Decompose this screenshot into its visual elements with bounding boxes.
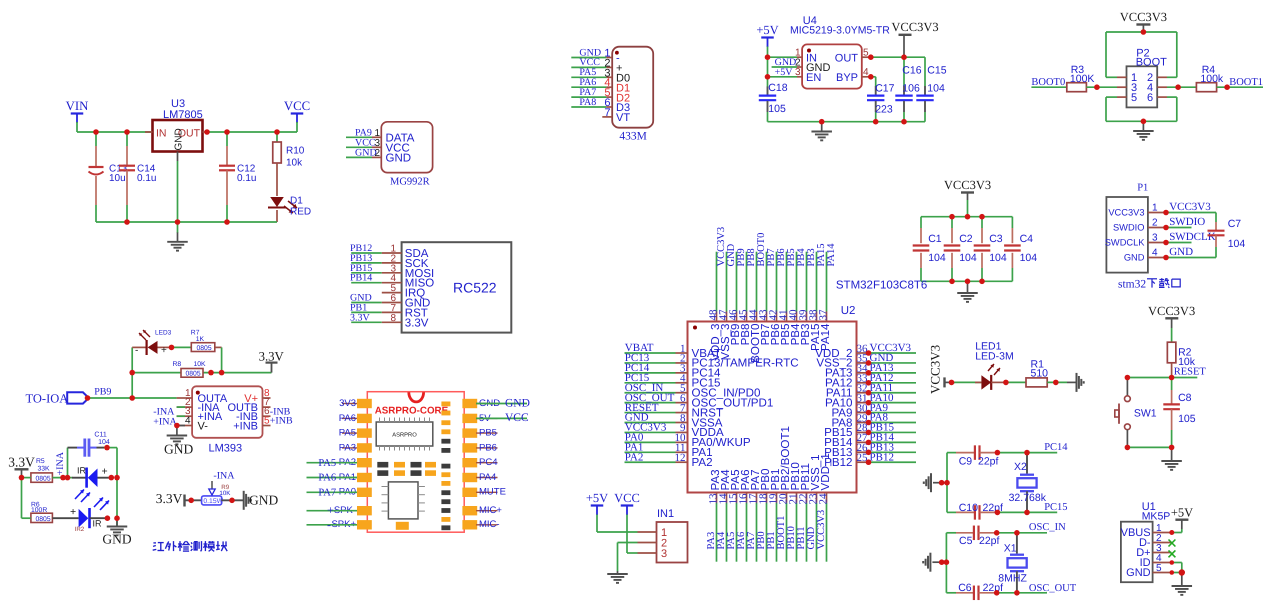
- wire cap top rail: [921, 216, 1012, 218]
- svg-text:+5V: +5V: [756, 23, 778, 37]
- wire GND row: [772, 66, 797, 68]
- svg-text:VCC3V3: VCC3V3: [891, 20, 938, 34]
- node PB9: [129, 395, 135, 401]
- svg-text:510: 510: [1031, 368, 1049, 380]
- node IR2 right a: [105, 515, 111, 521]
- wire net VCC to 433M pin 2: [571, 66, 606, 68]
- wire pin4 to ground: [177, 425, 185, 427]
- node c2b: [949, 279, 955, 285]
- U4 pin3: [797, 76, 802, 78]
- LED D LED1 LED-3M: [981, 375, 991, 389]
- resistor R10 10k: [276, 132, 278, 142]
- node VBUS: [1169, 530, 1174, 535]
- P1 pin 1 VCC3V3: [1148, 212, 1166, 214]
- wire -INA arrow: [211, 481, 213, 489]
- wire R2 to node: [1171, 363, 1173, 378]
- ASRPRO left pad SPK+: [357, 520, 372, 529]
- wire R9 right: [221, 499, 243, 501]
- resistor R4 100k: [1196, 83, 1216, 92]
- svg-text:C3: C3: [989, 233, 1003, 245]
- svg-text:PB5: PB5: [479, 428, 497, 439]
- node U4 IN: [765, 54, 771, 60]
- wire net PB12 to RC522 pin 1: [351, 252, 382, 254]
- svg-text:PA14: PA14: [826, 243, 837, 267]
- svg-text:C2: C2: [959, 233, 973, 245]
- wire X1 left vertical: [945, 533, 947, 593]
- svg-text:C18: C18: [768, 82, 787, 94]
- svg-text:C10: C10: [959, 502, 978, 514]
- node x2 g2: [944, 480, 950, 486]
- capacitor C17 223: [875, 86, 877, 95]
- wire net GND to 433M pin 1: [571, 57, 606, 59]
- svg-text:+: +: [161, 345, 167, 356]
- wire VCC right: [476, 417, 527, 419]
- wire net PB14 to RC522 pin 4: [351, 282, 382, 284]
- svg-text:+5V: +5V: [586, 491, 608, 505]
- wire P1 row1: [1166, 212, 1216, 214]
- U2 pin 25 PB12: [857, 461, 869, 463]
- node IR1 right b: [114, 475, 120, 481]
- svg-text:MUTE: MUTE: [479, 487, 506, 498]
- node R8 right: [208, 370, 214, 376]
- capacitor C2 104: [951, 217, 953, 228]
- IR photodiode IR1: [72, 477, 86, 479]
- svg-text:37: 37: [817, 309, 829, 321]
- ground LM393: [176, 426, 178, 436]
- svg-text:+INB: +INB: [270, 416, 293, 427]
- svg-text:-INA: -INA: [213, 471, 235, 482]
- svg-text:104: 104: [989, 252, 1007, 264]
- svg-text:3: 3: [661, 548, 667, 560]
- svg-text:MK5P: MK5P: [1142, 511, 1171, 523]
- 433M pin 6: [606, 106, 612, 108]
- wire R8 row: [132, 372, 181, 374]
- ASRPRO left pad PA2: [357, 458, 372, 467]
- svg-text:P1: P1: [1137, 183, 1148, 194]
- U2 pin 35 VSS_2: [857, 362, 869, 364]
- node +INA b: [65, 475, 71, 481]
- resistor R8 10K 0805: [181, 369, 203, 378]
- svg-text:104: 104: [928, 252, 946, 264]
- wire 3.3V down to R6: [21, 478, 23, 519]
- U1 pin 3 D+: [1153, 552, 1172, 554]
- U2 pin 37 PA14: [826, 312, 828, 322]
- wire R7 to corner: [215, 346, 222, 348]
- svg-text:STM32F103C8T6: STM32F103C8T6: [836, 280, 927, 292]
- wire net PA6 to 433M pin 4: [571, 86, 606, 88]
- 433M pin 5: [606, 96, 612, 98]
- svg-text:32.768k: 32.768k: [1009, 492, 1047, 504]
- wire net PA8 to 433M pin 6: [571, 106, 606, 108]
- LED D1 RED: [270, 197, 284, 207]
- U2 pin 23 VSS_1: [816, 493, 818, 503]
- svg-text:LM393: LM393: [209, 443, 243, 455]
- node R10 top: [274, 129, 280, 135]
- U2 pin 10 PA0/WKUP: [625, 441, 676, 443]
- node mid t: [965, 214, 971, 220]
- svg-text:2: 2: [374, 148, 380, 159]
- U2 pin 5 OSC_IN/PD0: [625, 392, 676, 394]
- capacitor C4 104: [1011, 217, 1013, 228]
- P2 pin 1: [1117, 76, 1127, 78]
- svg-text:3.3V: 3.3V: [259, 350, 285, 364]
- wire LED3 row left vertical: [131, 347, 133, 398]
- svg-text:VCC3V3: VCC3V3: [1169, 201, 1211, 213]
- svg-text:PB6: PB6: [479, 442, 497, 453]
- node mid b: [965, 279, 971, 285]
- wire C5 to OSC_IN: [997, 532, 1047, 534]
- svg-text:PA2: PA2: [692, 456, 713, 469]
- ASRPRO right pad 5V: [462, 414, 477, 423]
- svg-text:GND: GND: [505, 397, 530, 409]
- svg-text:RED: RED: [290, 207, 311, 218]
- U2 pin 15 PA5: [736, 493, 738, 503]
- svg-text:IR2: IR2: [75, 526, 85, 533]
- U2 pin 16 PA6: [746, 493, 748, 503]
- node gnd C17: [873, 119, 879, 125]
- microcontroller U2 STM32F103C8T6: [688, 322, 857, 493]
- wire R5 to IR1: [52, 477, 72, 479]
- svg-text:SWDCLK: SWDCLK: [1169, 231, 1216, 243]
- node x1 g1: [939, 559, 945, 565]
- wire RESET left: [1127, 377, 1171, 379]
- svg-text:104: 104: [98, 439, 110, 446]
- LM393 pin 6: [263, 415, 271, 417]
- wire IN1 pin2 to gnd: [618, 542, 638, 544]
- svg-text:8: 8: [390, 313, 396, 324]
- capacitor C13 10u polarized: [95, 132, 97, 146]
- wire ground rail: [96, 221, 277, 223]
- wire net PA5 to ASRPRO PA2: [307, 462, 358, 464]
- wire net PB13 to RC522 pin 2: [351, 262, 382, 264]
- U2 pin 48 VDD_3: [716, 312, 718, 322]
- P1 pin 2 SWDIO: [1148, 227, 1166, 229]
- ground IN1: [617, 571, 619, 573]
- node C14 top: [124, 129, 130, 135]
- U2 pin 44 BOOT0: [756, 312, 758, 322]
- U1 pin 5 GND: [1153, 572, 1172, 574]
- node corner R7R8: [219, 370, 225, 376]
- svg-text:VCC3V3: VCC3V3: [928, 345, 943, 394]
- svg-text:VCC3V3: VCC3V3: [1108, 208, 1144, 218]
- svg-text:PA5: PA5: [339, 428, 356, 439]
- node U3 GND bottom: [175, 219, 181, 225]
- svg-text:+: +: [327, 503, 334, 517]
- svg-text:VCC3V3: VCC3V3: [1120, 10, 1167, 24]
- U1 pin 2 D-: [1153, 542, 1172, 544]
- U2 pin 11 PA1: [625, 451, 676, 453]
- node LED1 right: [1003, 380, 1009, 386]
- RC522 pin 7: [382, 311, 402, 313]
- wire SW1 to gnd node: [1127, 446, 1171, 448]
- ASRPRO left pad 3V3: [357, 399, 372, 408]
- wire net PB1 to RC522 pin 7: [351, 311, 382, 313]
- node C6 right: [994, 590, 1000, 596]
- capacitor C6 22pf: [946, 592, 956, 594]
- node P2 top: [1141, 29, 1147, 35]
- P2 pin 4: [1157, 86, 1167, 88]
- P1 pin 3 SWDCLK: [1148, 242, 1166, 244]
- node OUT: [204, 129, 210, 135]
- svg-text:PA4: PA4: [479, 472, 496, 483]
- wire VCC to IN1 pin3: [626, 515, 628, 554]
- svg-text:104: 104: [927, 83, 945, 95]
- svg-text:22pf: 22pf: [979, 535, 1000, 547]
- wire BYP to C17: [871, 76, 876, 78]
- ground P2: [1142, 121, 1144, 130]
- svg-text:RESET: RESET: [1174, 367, 1207, 378]
- wire pin4 to R4: [1167, 86, 1196, 88]
- 433M pin1 dot: [615, 51, 619, 55]
- resistor R3 100K: [1067, 83, 1087, 92]
- LM393 pin 8: [263, 397, 271, 399]
- svg-text:6: 6: [1147, 92, 1153, 104]
- svg-text:2: 2: [1152, 218, 1158, 229]
- U2 pin 20 PB2/BOOT1: [786, 493, 788, 503]
- node R8 left: [129, 370, 135, 376]
- svg-text:SWDIO: SWDIO: [1113, 223, 1145, 233]
- node P2 bottom: [1141, 119, 1147, 125]
- node C8 bottom: [1169, 445, 1175, 451]
- wire P1 row3: [1166, 242, 1192, 244]
- ground R9: [243, 491, 245, 510]
- svg-text:MG992R: MG992R: [390, 177, 430, 188]
- U2 pin 43 PB7: [766, 312, 768, 322]
- wire +5V vertical: [767, 47, 769, 88]
- U2 pin 6 OSC_OUT/PD1: [625, 402, 676, 404]
- node ID: [1170, 560, 1175, 565]
- node C12 top: [224, 129, 230, 135]
- svg-text:R5: R5: [36, 458, 45, 465]
- svg-text:IR: IR: [77, 466, 87, 476]
- wire GND pin: [1172, 572, 1182, 574]
- svg-text:PB9: PB9: [94, 387, 111, 398]
- wire net GND to MG992R pin 2: [346, 156, 372, 158]
- ASRPRO left pad PA1: [357, 473, 372, 482]
- switch SW1: [1126, 378, 1128, 396]
- svg-text:VCC3V3: VCC3V3: [816, 510, 827, 550]
- label IR module title: [153, 543, 164, 551]
- ground U4: [821, 122, 823, 131]
- wire pin3 stub: [177, 415, 185, 417]
- node c2t: [949, 214, 955, 220]
- svg-text:PA14: PA14: [819, 323, 832, 351]
- wire U4 ground rail: [768, 121, 926, 123]
- node R9 left: [188, 498, 194, 504]
- svg-text:BYP: BYP: [836, 72, 858, 84]
- svg-text:LM7805: LM7805: [163, 109, 203, 121]
- svg-text:-: -: [135, 345, 138, 356]
- no-connect D+: [1169, 550, 1176, 557]
- U2 pin 38 PA15: [816, 312, 818, 322]
- node gnd center: [819, 119, 825, 125]
- U2 pin 47 VSS_3: [726, 312, 728, 322]
- crystal X1 8MHZ: [1016, 533, 1018, 554]
- svg-text:VCC: VCC: [614, 491, 640, 505]
- U2 pin 8 VSSA: [625, 422, 676, 424]
- IN1 pin 2: [638, 542, 657, 544]
- svg-text:C11: C11: [94, 432, 106, 439]
- svg-text:RC522: RC522: [453, 280, 497, 296]
- wire P1 row4: [1166, 257, 1216, 259]
- svg-text:100k: 100k: [1200, 73, 1224, 85]
- node C13 top: [93, 129, 99, 135]
- svg-text:3.3V: 3.3V: [350, 312, 371, 323]
- svg-text:10K: 10K: [219, 490, 231, 497]
- 433M pin 1: [606, 57, 612, 59]
- module ASRPRO-CORE outline: [367, 392, 464, 533]
- wire net PA6 to ASRPRO PA1: [307, 477, 358, 479]
- svg-text:5: 5: [1131, 92, 1137, 104]
- U2 pin 24 VDD_1: [826, 493, 828, 503]
- svg-text:LED3: LED3: [155, 330, 172, 337]
- wire VIN drop: [76, 122, 78, 132]
- svg-text:+INB: +INB: [233, 420, 258, 432]
- svg-text:GND: GND: [174, 128, 185, 150]
- capacitor C11 104: [68, 447, 78, 449]
- svg-text:OSC_IN: OSC_IN: [1029, 522, 1066, 533]
- ground reset: [1171, 447, 1173, 460]
- LM393 pin 1: [177, 397, 193, 399]
- U2 pin 29 PA8: [857, 422, 869, 424]
- 433M pin 4: [606, 86, 612, 88]
- node VCC3V3 tap: [901, 54, 907, 60]
- voltage regulator U3 LM7805: [153, 120, 203, 152]
- RC522 pin 2: [382, 262, 402, 264]
- P2 pin 2: [1157, 76, 1167, 78]
- ground: [177, 232, 179, 242]
- connector P1 box: [1106, 197, 1148, 273]
- svg-text:1K: 1K: [196, 336, 205, 343]
- svg-text:C16: C16: [902, 65, 921, 77]
- wire RESET right: [1172, 377, 1198, 379]
- ASRPRO pad column: [441, 402, 450, 407]
- ASRPRO bottom pad: [396, 522, 409, 530]
- node LED1 left: [949, 380, 955, 386]
- svg-text:PC4: PC4: [479, 457, 497, 468]
- U2 pin 13 PA3: [716, 493, 718, 503]
- wire C6 to OSC_OUT: [997, 592, 1047, 594]
- wire PB9 row: [89, 397, 177, 399]
- LM393 pin 3: [177, 415, 193, 417]
- svg-text:IR: IR: [93, 519, 103, 529]
- ASRPRO left pad SPK-: [357, 506, 372, 515]
- svg-text:0805: 0805: [197, 345, 212, 352]
- U2 pin 22 PB11: [806, 493, 808, 503]
- wire to LED1: [952, 381, 982, 383]
- node R9 right: [229, 498, 235, 504]
- wire 3.3V bar to R9: [185, 499, 202, 501]
- no-connect D-: [1169, 540, 1176, 547]
- svg-text:GND: GND: [1124, 253, 1145, 263]
- node C14 bottom: [124, 219, 130, 225]
- node 3.3V IR: [19, 475, 25, 481]
- svg-text:SW1: SW1: [1134, 408, 1157, 420]
- ASRPRO inner ic: [388, 482, 418, 519]
- wire LED3 to R7: [172, 346, 192, 348]
- node X2 top: [1024, 450, 1030, 456]
- node GND pin: [1170, 570, 1175, 575]
- svg-text:VCC3V3: VCC3V3: [944, 178, 991, 192]
- svg-text:MIC-: MIC-: [479, 519, 500, 530]
- node RESET: [1169, 375, 1175, 381]
- node BYP: [868, 74, 874, 80]
- svg-text:3: 3: [795, 67, 801, 78]
- U2 pin 41 PB5: [786, 312, 788, 322]
- svg-text:SWDIO: SWDIO: [1169, 216, 1205, 228]
- U2 pin 9 VDDA: [625, 431, 676, 433]
- LM393 pin 5: [263, 425, 271, 427]
- svg-text:BOOT: BOOT: [1136, 56, 1167, 68]
- svg-text:+5V: +5V: [1171, 506, 1193, 520]
- svg-text:VCC: VCC: [505, 412, 529, 424]
- LED D LED3: [132, 346, 146, 348]
- U2 pin 4 PC15: [625, 382, 676, 384]
- U2 pin 31 PA10: [857, 402, 869, 404]
- LM393 pin 7: [263, 406, 271, 408]
- IR photodiode IR2: [52, 517, 78, 519]
- wire GND right: [476, 403, 527, 405]
- capacitor C15 104: [924, 57, 926, 86]
- U4 pin5 OUT: [862, 56, 871, 58]
- connector 433M box: [612, 47, 653, 128]
- svg-text:V-: V-: [198, 420, 209, 432]
- node x2 g1: [939, 480, 945, 486]
- svg-text:LED-3M: LED-3M: [975, 350, 1014, 362]
- ground C1-C4: [967, 281, 969, 292]
- svg-text:0805: 0805: [186, 371, 201, 378]
- node c3b: [979, 279, 985, 285]
- 433M pin 7: [602, 116, 612, 118]
- svg-text:GND: GND: [355, 148, 377, 159]
- potentiometer R9 10K 0.15W: [202, 496, 222, 505]
- node +INA a: [60, 475, 66, 481]
- svg-text:GND: GND: [102, 532, 131, 547]
- wire X2 left vertical: [946, 453, 948, 513]
- node TO-IOA: [85, 395, 91, 401]
- U2 pin 34 PA13: [857, 372, 869, 374]
- resistor R7 1K 0805: [191, 343, 215, 352]
- svg-text:C8: C8: [1178, 392, 1192, 404]
- module RC522 box: [402, 242, 512, 332]
- svg-text:C17: C17: [875, 83, 894, 95]
- U1 pin 1 VBUS: [1153, 532, 1172, 534]
- svg-text:+INA: +INA: [55, 451, 66, 475]
- wire ID to GND: [1172, 562, 1182, 564]
- U2 pin 3 PC14: [625, 372, 676, 374]
- svg-text:VCC3V3: VCC3V3: [1148, 304, 1195, 318]
- node X2 bottom: [1024, 510, 1030, 516]
- svg-text:33K: 33K: [38, 465, 51, 472]
- node R4 left: [1175, 84, 1181, 90]
- U2 pin 33 PA12: [857, 382, 869, 384]
- U4 pin1: [797, 56, 802, 58]
- capacitor C18 105: [767, 86, 769, 89]
- U2 pin 27 PB14: [857, 441, 869, 443]
- wire net GND to RC522 pin 6: [351, 302, 382, 304]
- svg-text:PA6: PA6: [339, 413, 356, 424]
- wire corner down: [221, 347, 223, 372]
- svg-text:100R: 100R: [31, 507, 47, 514]
- wire cap bottom rail: [921, 280, 1012, 282]
- ASRPRO right pad MIC-: [462, 520, 477, 529]
- ground U1: [1181, 573, 1183, 586]
- node X1 top: [1014, 530, 1020, 536]
- svg-text:0.1u: 0.1u: [137, 173, 156, 184]
- svg-text:PA7: PA7: [318, 488, 336, 499]
- U2 pin 30 PA9: [857, 412, 869, 414]
- comparator U LM393: [192, 386, 262, 438]
